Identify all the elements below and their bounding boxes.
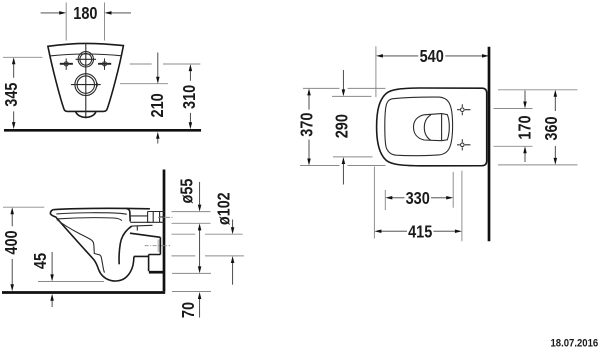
dim 290: bottom outside arrow <box>342 164 344 185</box>
dim 330 (plan bottom): extension lines <box>385 172 453 210</box>
front view: left mounting hole crosshair <box>60 58 73 70</box>
dim ø102 (side): extension line segments <box>172 234 244 256</box>
dim 310 (front right): extension line segments at hole level <box>130 63 201 65</box>
dim 370: dimension line segments <box>308 95 310 160</box>
dim 45: bottom outside arrow (below floor) <box>51 301 53 307</box>
dim ø102: bottom outside arrow <box>232 263 234 285</box>
dim 290: top outside arrow <box>342 70 344 90</box>
side view: flush pipe internal line <box>130 215 147 217</box>
svg-text:170: 170 <box>514 115 534 139</box>
side view: seat lid top line <box>53 208 150 209</box>
plan view: toilet outer outline <box>377 88 487 166</box>
svg-text:400: 400 <box>1 230 21 254</box>
front view: drain circle outer ø102 <box>75 74 97 96</box>
dim ø55: bottom arrow shaft shared with dim 70 top arrow <box>199 230 201 267</box>
dim 70: top outside arrow head (down) <box>198 266 202 273</box>
side view: rear diagonal to wall <box>130 233 160 237</box>
side view: wall line (thick) <box>163 170 166 292</box>
dim 540: right arrow <box>482 54 489 58</box>
dim 360: dimension line segments <box>554 96 556 159</box>
dim 400: bottom arrow <box>10 284 14 291</box>
dim 415: dimension line segments <box>381 230 456 232</box>
dim ø55: top outside arrow <box>199 182 201 205</box>
dim 70: bottom outside arrow (below floor) <box>199 299 201 318</box>
dim 370: top arrow <box>307 88 311 95</box>
dim 540 (plan top): left extension line <box>375 46 377 97</box>
side view: drain stub right vertical <box>159 237 161 254</box>
dim 170: bottom outside arrow <box>524 153 526 162</box>
side view: rear slab bottom <box>130 221 150 223</box>
dim 45 (side): extension line <box>38 281 104 283</box>
dim 180 (front top): extension lines <box>66 3 104 41</box>
dim 400 (side left): extension line <box>3 206 44 208</box>
side view: seat line <box>56 213 126 214</box>
side view: outer bowl profile <box>50 210 134 281</box>
dim 310: bottom arrow <box>189 122 193 129</box>
dim 540: left arrow <box>376 54 383 58</box>
plan view: wall line (thick) <box>488 47 491 242</box>
front view: tank band bottom line <box>50 54 122 56</box>
side view: flush channel line under slab <box>132 224 153 227</box>
dim ø102: top outside arrow <box>232 220 234 228</box>
dim 310: top arrow <box>189 64 193 71</box>
front view: drain circle horizontal centerline <box>71 84 101 86</box>
plan view: inner bowl water outline <box>414 114 450 141</box>
side view: drain pipe gray end <box>157 240 160 253</box>
svg-text:ø55: ø55 <box>177 178 197 203</box>
svg-text:345: 345 <box>1 82 21 106</box>
side view: supply stub rectangle at wall <box>148 212 165 223</box>
plan view: inner bowl right vertical edge <box>441 114 443 140</box>
dim 45: top outside arrow <box>51 252 53 275</box>
front view: supply circle inner <box>80 53 92 65</box>
dim 290 (plan left inner): extension lines <box>332 96 373 156</box>
front view: drain circle inner <box>77 76 94 93</box>
dim 415 (plan bottom): extension lines <box>374 167 462 242</box>
dim 180: left arrow <box>41 12 60 14</box>
svg-text:18.07.2016: 18.07.2016 <box>551 337 599 347</box>
front view: bottom outlet dome arc <box>76 111 96 117</box>
side view: small notch under slab <box>136 225 138 230</box>
dim 360: bottom arrow <box>554 158 558 165</box>
dim 170 (plan right): extension lines <box>494 109 533 147</box>
side view: lid rear step down <box>126 208 130 221</box>
front view: right mounting hole crosshair <box>98 58 111 70</box>
svg-text:330: 330 <box>406 188 430 208</box>
front view: ground line (thick) <box>4 129 201 132</box>
dim 330: left arrow <box>385 196 392 200</box>
front view: supply circle horizontal centerline <box>76 58 96 60</box>
svg-text:360: 360 <box>541 116 561 140</box>
dim 400: dimension line segments <box>11 213 13 285</box>
svg-text:290: 290 <box>332 114 352 138</box>
dim 170: top outside arrow <box>524 91 526 102</box>
svg-text:180: 180 <box>73 3 97 23</box>
side view: ceramic rim line <box>57 218 122 221</box>
dim 540: dimension line segments <box>382 55 483 57</box>
svg-text:210: 210 <box>147 93 167 117</box>
svg-text:45: 45 <box>30 253 50 269</box>
svg-text:ø102: ø102 <box>213 192 233 225</box>
dim 360: top arrow <box>554 90 558 97</box>
dim 330: right arrow <box>446 196 453 200</box>
svg-text:540: 540 <box>420 46 444 66</box>
dim 345 (front left): extension line <box>3 56 42 58</box>
dim 70 (side bottom): extension lines <box>172 273 211 291</box>
dim 345: dimension line segments <box>13 64 15 124</box>
dim ø55 (side): extension lines <box>172 212 211 224</box>
side view: outlet box thick bottom <box>149 271 164 274</box>
plan view: inner rim <box>385 97 453 156</box>
dim 400: top arrow <box>10 207 14 214</box>
front view: vertical centerline <box>85 43 87 118</box>
svg-text:370: 370 <box>297 112 317 136</box>
side view: floor line (thick) <box>2 291 165 294</box>
svg-text:310: 310 <box>179 85 199 109</box>
dim 210: bottom outside arrow (below ground) <box>157 139 159 144</box>
dim 310: dimension line segments <box>189 70 191 123</box>
svg-text:70: 70 <box>178 302 198 318</box>
side view: trap inner curve <box>119 226 132 264</box>
plan view: lower mounting hole crosshair <box>457 139 470 150</box>
front view: toilet outline <box>48 43 124 111</box>
side view: drain centerline dash <box>145 245 170 247</box>
front view: supply circle outer <box>78 52 93 67</box>
plan view: upper mounting hole crosshair <box>457 104 470 115</box>
side view: drain stub bottom step <box>134 255 161 272</box>
side view: inner bowl line with step <box>57 220 105 273</box>
dim 370: bottom arrow <box>307 159 311 166</box>
dim 415: right arrow <box>455 229 462 233</box>
dim 415: left arrow <box>374 229 381 233</box>
svg-text:415: 415 <box>408 221 432 241</box>
dim 330: dimension line segments <box>392 197 447 199</box>
dim 360 (plan far right): extension lines <box>498 90 578 165</box>
dim 345: bottom arrow <box>12 122 16 129</box>
dim 210: top outside arrow <box>157 53 159 77</box>
plan view: inner bowl small arc <box>424 115 431 141</box>
side view: supply centerline dash <box>158 216 174 218</box>
dim 180: right arrow <box>111 12 131 14</box>
dim 345: top arrow <box>12 57 16 64</box>
dim 370 (plan left): extension lines <box>300 88 386 165</box>
front view: drain centerline end ticks <box>96 83 98 87</box>
dim 210 (front, mid-right): extension line at drain level <box>120 83 168 85</box>
